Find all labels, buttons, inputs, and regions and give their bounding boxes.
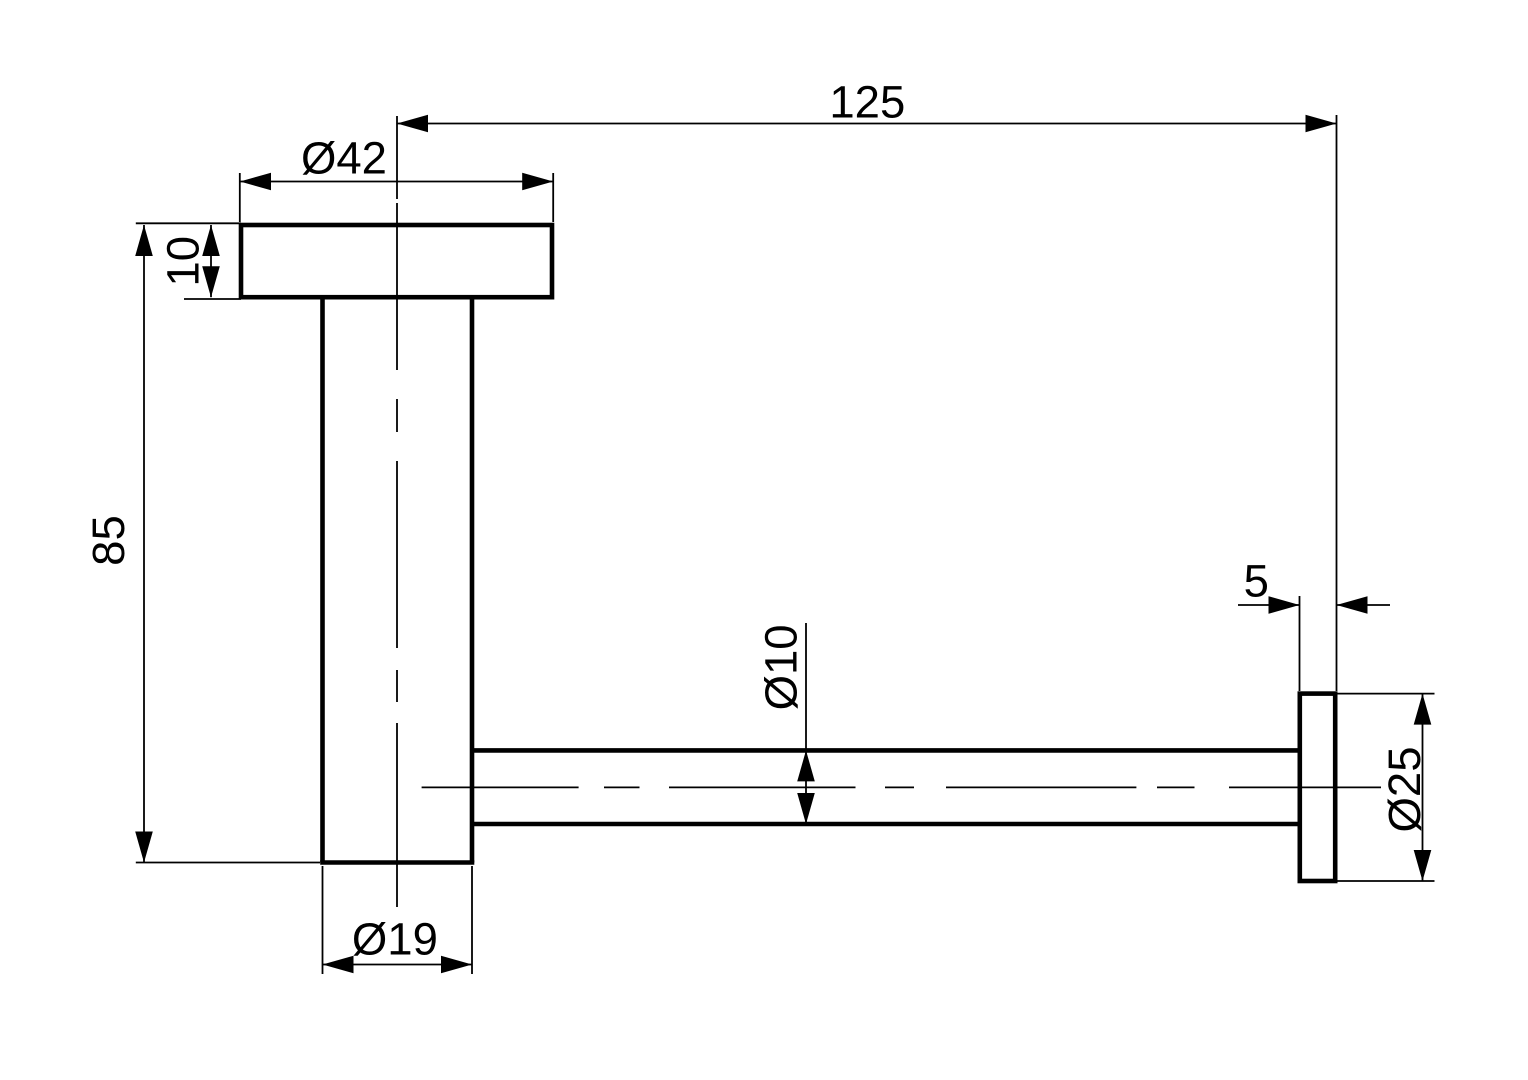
post right edge <box>470 298 475 863</box>
dimension line 85 <box>143 225 145 863</box>
arm bottom edge <box>472 822 1300 827</box>
arrow 125 left <box>397 115 428 133</box>
dimension line Ø25 <box>1422 694 1424 881</box>
extension line Ø19 left <box>322 866 324 974</box>
vertical center line of post <box>396 116 398 907</box>
extension line Ø42 left <box>239 173 241 222</box>
arrow Ø42 left <box>240 173 271 191</box>
dimension line Ø10 (vertical leader through arm) <box>805 623 807 824</box>
extension line Ø25 bottom <box>1337 880 1435 882</box>
arm top edge (Ø10 bar) <box>472 748 1300 753</box>
svg-text:85: 85 <box>83 515 134 566</box>
arrow 10 down <box>202 266 220 297</box>
extension line Ø42 right <box>552 173 554 222</box>
post left edge (Ø19 pillar) <box>320 298 325 863</box>
arrow 85 down <box>135 832 153 863</box>
extension line bottom of 85 <box>136 862 320 864</box>
arrow 5 left (points right) <box>1269 596 1300 614</box>
arrow 125 right <box>1306 115 1337 133</box>
arrow Ø10 down <box>797 793 815 824</box>
svg-text:Ø10: Ø10 <box>756 624 807 710</box>
arrow Ø19 left <box>323 956 354 974</box>
arrow Ø42 right <box>522 173 553 191</box>
dimension line Ø42 <box>240 181 553 183</box>
dimension line 125 <box>397 123 1337 125</box>
dimension line 5 left tail <box>1238 604 1300 606</box>
arrow Ø10 up <box>797 750 815 781</box>
wall plate (flange, Ø42 x 10) <box>241 225 552 297</box>
dimension line Ø19 <box>323 964 473 966</box>
dimension line 5 right tail <box>1337 604 1391 606</box>
horizontal center line of arm <box>422 786 1381 788</box>
extension line Ø25 top <box>1337 693 1435 695</box>
extension line Ø19 right <box>471 866 473 974</box>
svg-text:Ø42: Ø42 <box>301 133 387 184</box>
extension line right of 125 (cap right edge extended) <box>1336 115 1338 691</box>
svg-text:125: 125 <box>829 77 905 128</box>
arrow 5 right (points left) <box>1337 596 1368 614</box>
svg-text:5: 5 <box>1244 556 1269 607</box>
arrow Ø19 right <box>441 956 472 974</box>
extension line bottom of 10 <box>184 298 241 300</box>
end cap (Ø25 x 5) <box>1300 694 1335 881</box>
post bottom edge <box>320 860 474 865</box>
svg-text:Ø25: Ø25 <box>1379 746 1430 832</box>
svg-text:Ø19: Ø19 <box>352 914 438 965</box>
arrow Ø25 down <box>1414 850 1432 881</box>
arrow 10 up <box>202 225 220 256</box>
dimension line 10 (plate thickness) <box>210 225 212 297</box>
arrow 85 up <box>135 225 153 256</box>
extension line top shared by 85 and 10 <box>136 222 241 224</box>
svg-text:10: 10 <box>158 236 209 287</box>
arrow Ø25 up <box>1414 694 1432 725</box>
extension line 5 left (cap left edge extended) <box>1299 596 1301 691</box>
